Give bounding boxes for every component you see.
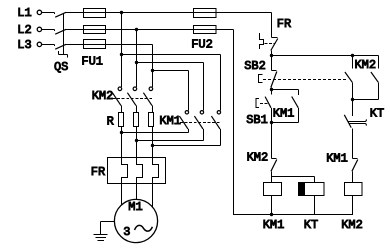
junction node C — [270, 121, 273, 124]
svg-text:FU2: FU2 — [191, 37, 213, 51]
wire phase row 1 — [66, 12, 272, 14]
fuse FU2 pole 1 — [194, 9, 217, 18]
KM2 main contacts link (dashed) — [113, 98, 154, 100]
svg-text:KM2: KM2 — [341, 218, 363, 232]
junction row2-col2 — [135, 28, 138, 31]
junction tapA — [120, 131, 123, 134]
wire FR contact feed — [271, 13, 273, 38]
wire L3 lead — [42, 45, 55, 47]
fuse FU1 pole 1 — [84, 9, 106, 18]
wire KT coil bottom — [314, 196, 316, 215]
fuse FU1 pole 2 — [84, 26, 106, 34]
contactor KM1 NC interlock contact — [352, 159, 358, 183]
junction tapC — [151, 144, 154, 147]
coil KT (time relay, filled delay mark) — [299, 183, 325, 196]
time relay KT delayed NO contact — [344, 115, 366, 128]
wire motor lead 2 — [136, 184, 138, 201]
wire feed line 3 to KM1 pole1 — [153, 71, 189, 111]
junction feed1 — [120, 53, 123, 56]
svg-text:SB1: SB1 — [246, 113, 268, 127]
wire col3 below R — [152, 127, 154, 158]
junction node B — [270, 88, 273, 91]
wire feed line 2 to KM1 pole2 — [137, 63, 204, 111]
contactor KM2 main pole 3 — [143, 87, 152, 113]
svg-text:3: 3 — [123, 225, 130, 239]
junction node A — [270, 54, 273, 57]
junction feed3 — [151, 69, 154, 72]
svg-text:SB2: SB2 — [244, 59, 266, 73]
wire KM1 coil bottom — [271, 196, 273, 215]
junction tapB — [135, 139, 138, 142]
resistor R pole 2 — [134, 113, 139, 127]
svg-text:KM1: KM1 — [273, 106, 295, 120]
wire node E down — [352, 100, 354, 117]
svg-text:KM1: KM1 — [159, 114, 181, 128]
junction node A2 — [351, 54, 354, 57]
FR heater element 3 — [153, 158, 159, 184]
junction node E — [351, 98, 354, 101]
ground — [94, 222, 115, 241]
svg-text:KM1: KM1 — [326, 151, 348, 165]
coil KM1 — [264, 183, 282, 196]
wire col1 drop — [121, 13, 123, 88]
resistor R pole 1 — [119, 113, 124, 127]
svg-text:FR: FR — [277, 17, 291, 31]
contactor KM1 main pole 2 — [194, 111, 203, 129]
contactor KM2 main pole 2 — [127, 87, 136, 113]
fuse FU1 pole 3 — [84, 40, 106, 49]
wire col1 below R — [121, 127, 123, 158]
switch QS pole 2 blade — [55, 29, 66, 34]
svg-text:FR: FR — [91, 165, 105, 179]
switch QS mechanical link — [59, 14, 68, 58]
wire tap line C (KM1 pole3 bottom) — [153, 129, 221, 146]
wire phase row 2 — [66, 29, 234, 31]
wire motor lead 3 — [152, 184, 154, 210]
contactor KM1 main pole 3 — [211, 111, 220, 129]
wire node D to KT coil — [272, 177, 315, 183]
wire L1 lead — [42, 13, 55, 15]
contactor KM1 aux NO contact (self hold) — [272, 90, 299, 123]
wire KM1 coil top — [271, 177, 273, 183]
node L1 — [17, 6, 41, 20]
wire motor lead 1 — [121, 184, 123, 206]
switch QS pole 1 blade — [55, 12, 66, 17]
pushbutton SB1 NO contact — [265, 97, 271, 159]
wire col3 drop — [152, 45, 154, 88]
contactor KM2 main pole 1 — [112, 87, 121, 113]
thermal relay FR heater box — [108, 158, 166, 184]
node L3 — [17, 38, 41, 52]
node L2 — [17, 23, 41, 37]
svg-text:L1: L1 — [17, 6, 31, 20]
wire phase row 3 — [66, 44, 153, 46]
wire control left rail and bottom rail — [234, 30, 353, 215]
wire feed line 1 to KM1 pole3 — [122, 55, 221, 111]
svg-text:KM2: KM2 — [92, 89, 114, 103]
switch QS pole 3 blade — [55, 44, 66, 49]
svg-text:L2: L2 — [17, 23, 31, 37]
pushbutton SB2 NC contact — [271, 71, 277, 95]
fuse FU2 pole 2 — [194, 26, 217, 34]
wire col2 below R — [136, 127, 138, 158]
svg-text:L3: L3 — [17, 38, 31, 52]
svg-text:FU1: FU1 — [81, 54, 103, 68]
FR heater element 2 — [137, 158, 143, 184]
thermal relay FR NC contact — [271, 38, 278, 71]
svg-text:KT: KT — [304, 218, 318, 232]
wire col2 drop — [136, 30, 138, 88]
junction KM1 coil to rail — [270, 213, 273, 216]
resistor R pole 3 — [149, 113, 154, 127]
svg-text:KM1: KM1 — [263, 218, 285, 232]
svg-text:KM2: KM2 — [247, 151, 269, 165]
wire node B to KM1 aux branch — [272, 89, 299, 91]
FR trip actuator — [260, 33, 276, 49]
wire tap line B (KM1 pole2 bottom) — [137, 129, 204, 141]
contactor KM2 aux NO contact (self hold) — [353, 56, 379, 100]
KM1 main contacts link (dashed) — [180, 122, 221, 124]
junction row1-col1 — [120, 11, 123, 14]
pushbutton SB2 NO contact (linked) — [345, 56, 353, 100]
svg-text:M1: M1 — [128, 200, 142, 214]
FR heater element 1 — [122, 158, 128, 184]
SB2 actuator — [259, 75, 349, 83]
svg-text:QS: QS — [54, 60, 68, 74]
coil KM2 — [345, 183, 363, 196]
contactor KM2 NC interlock contact — [271, 159, 277, 177]
junction feed2 — [135, 61, 138, 64]
SB1 actuator — [256, 99, 268, 108]
wire L2 lead — [42, 30, 55, 32]
svg-text:KM2: KM2 — [354, 58, 376, 72]
wire KT contact to KM1 interlock — [352, 129, 354, 159]
wire node A to KM2 branch — [272, 55, 379, 57]
motor M1 — [114, 199, 157, 242]
svg-text:R: R — [107, 114, 114, 128]
svg-text:KT: KT — [370, 107, 384, 121]
wire tap line A (KM1 pole1 bottom) — [122, 129, 189, 133]
contactor KM1 main pole 1 — [179, 111, 188, 129]
